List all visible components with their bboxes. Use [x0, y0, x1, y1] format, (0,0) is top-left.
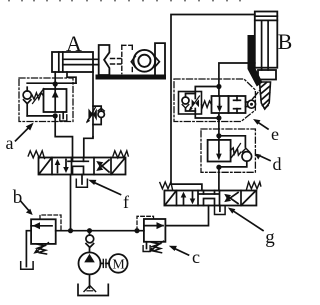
- svg-text:a: a: [6, 133, 14, 153]
- node at d bottom: [216, 165, 221, 170]
- wire: pipe from valve group to cylinder B cap: [171, 15, 255, 185]
- solenoid f right: [112, 158, 126, 174]
- roller operator: [246, 101, 249, 103]
- arrow c: [172, 247, 189, 255]
- arrow a: [16, 125, 32, 141]
- spring of a: [32, 93, 44, 99]
- cylinder B rod: [261, 20, 263, 70]
- wire: rod end line down through throttle: [92, 72, 94, 137]
- svg-text:c: c: [192, 247, 200, 267]
- spring g left: [160, 182, 173, 190]
- coupling: [101, 262, 104, 264]
- svg-text:f: f: [123, 192, 129, 212]
- svg-text:B: B: [278, 29, 293, 54]
- suction pipe: [89, 274, 91, 288]
- valve g tank: [219, 206, 221, 212]
- dash-dot enclosure d: [201, 129, 255, 172]
- wire: cylinder B rod side down to node: [219, 63, 255, 87]
- wire: valve a internal top rail: [27, 82, 76, 84]
- node at d top: [216, 133, 221, 138]
- pilot dash of b: [40, 215, 61, 231]
- valve g body: [164, 191, 256, 206]
- adjust arrow of c: [152, 241, 164, 250]
- wire: main line through e: [218, 87, 220, 97]
- drain tank of a: [62, 112, 64, 119]
- arrow d: [258, 155, 270, 161]
- svg-text:e: e: [271, 124, 279, 144]
- cylinder A piston: [58, 52, 60, 72]
- wire: cylinder A rod side elbow: [67, 72, 76, 83]
- deceleration valve e squares: [212, 96, 229, 113]
- wire: cylinder A cap port down: [54, 72, 56, 84]
- wire: A-port drop to valve g: [171, 184, 202, 190]
- node below e valve: [216, 115, 221, 120]
- relief valve a body: [44, 89, 67, 112]
- wire: valve f P to pump rail: [70, 175, 72, 231]
- e left square arrow: [219, 96, 221, 105]
- cylinder A barrel: [52, 52, 93, 72]
- workpiece: [134, 50, 156, 72]
- spring of c: [152, 242, 162, 252]
- left V seat: [131, 56, 135, 67]
- cylinder A rod: [63, 58, 99, 60]
- check valve branch of d: [219, 136, 246, 147]
- node at valve a bottom: [53, 113, 58, 118]
- dash-dot enclosure e: [174, 79, 255, 122]
- valve f square1 arrows: [57, 162, 59, 173]
- arrow g: [231, 210, 263, 231]
- cylinder B piston: [255, 15, 277, 17]
- dash-dot enclosure a: [19, 78, 73, 122]
- cylinder B barrel: [255, 12, 277, 68]
- roller linkage (dashed): [253, 91, 260, 100]
- solenoid f left: [39, 158, 52, 174]
- solenoid g right: [242, 191, 256, 205]
- machine table (black): [96, 75, 167, 80]
- spring f left: [28, 151, 44, 159]
- motor M: [109, 254, 128, 273]
- valve f tank: [81, 175, 83, 185]
- moving V clamp block: [99, 45, 110, 75]
- spring of e valve: [202, 101, 212, 108]
- arrow e: [256, 121, 268, 129]
- e right square blocked: [236, 96, 238, 100]
- valve f square3 crossed arrows: [99, 163, 110, 172]
- node junction at e inlet: [216, 84, 221, 89]
- svg-text:g: g: [265, 227, 275, 248]
- pump: [79, 252, 101, 274]
- spring f right: [113, 151, 128, 158]
- drain of c: [146, 242, 148, 249]
- clamp phantom position (dashed): [111, 45, 133, 73]
- cropped text specks at top edge: [8, 0, 241, 1]
- main tank: [78, 284, 108, 295]
- arrow b: [21, 202, 31, 213]
- throttle branch rail of e: [195, 87, 219, 92]
- outlet of b to tank: [26, 231, 31, 267]
- drill bit (hatched): [260, 82, 271, 109]
- one-way throttle on rod line: [88, 108, 93, 120]
- check valve in e box: [186, 94, 196, 98]
- node at valve a top: [53, 81, 58, 86]
- adjust arrow of d: [232, 144, 241, 158]
- outlet of c to valve g: [165, 206, 208, 226]
- valve g square1 arrows: [183, 195, 185, 205]
- svg-text:b: b: [13, 187, 23, 208]
- feed carriage (black bar): [248, 35, 263, 87]
- valve g square3 crossed arrows: [227, 196, 239, 204]
- adjust arrow of b: [37, 243, 49, 252]
- adjust arrow of a: [33, 89, 44, 104]
- strainer: [84, 286, 96, 292]
- main pressure rail: [56, 230, 144, 232]
- svg-text:d: d: [273, 154, 282, 174]
- spring of d: [231, 148, 241, 155]
- valve g center position: [203, 191, 205, 195]
- relief valve b body: [31, 219, 56, 244]
- solenoid g left: [165, 191, 176, 205]
- spindle housing: [258, 70, 276, 80]
- tank of b: [21, 262, 33, 269]
- valve f center position: [72, 158, 74, 162]
- check valve of a: [26, 87, 28, 91]
- pilot dash of c: [137, 216, 154, 230]
- svg-text:M: M: [112, 257, 125, 272]
- check valve above pump: [89, 231, 91, 236]
- one-way throttle box of e: [179, 92, 202, 115]
- spring g right: [247, 182, 261, 190]
- wire: d down to valve g: [218, 167, 220, 191]
- valve f body: [39, 158, 126, 175]
- arrow f: [92, 181, 121, 194]
- fixed block: [155, 43, 165, 74]
- wire: jogs down to valve f ports: [55, 116, 72, 158]
- spring of b: [37, 244, 47, 254]
- right V seat: [155, 57, 159, 66]
- sequence valve c body: [144, 219, 166, 242]
- sequence valve d body: [208, 140, 231, 162]
